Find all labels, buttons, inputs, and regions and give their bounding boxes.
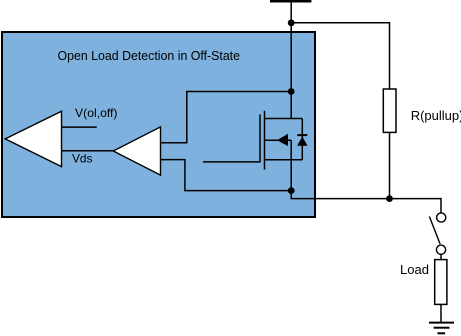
wire: drain sense to comparator input bbox=[161, 92, 292, 143]
node: supply junction bbox=[288, 19, 295, 26]
svg-text:Load: Load bbox=[400, 262, 429, 277]
node: output junction bbox=[386, 195, 393, 202]
svg-text:R(pullup): R(pullup) bbox=[411, 108, 461, 123]
wire: load to ground bbox=[440, 304, 442, 322]
switch S1: upper contact bbox=[437, 213, 446, 222]
wire: supply down to MOSFET drain bbox=[290, 2, 292, 119]
svg-text:Vds: Vds bbox=[72, 152, 93, 166]
transistor Q1: gate lead bbox=[203, 161, 260, 163]
diode D1: cathode bar bbox=[297, 134, 307, 136]
transistor Q1: source arrowhead bbox=[277, 134, 288, 146]
op-amp: output comparator bbox=[5, 111, 61, 166]
wire: R(pullup) down to output node bbox=[389, 132, 391, 198]
node: drain junction bbox=[288, 88, 295, 95]
node: source junction bbox=[288, 187, 295, 194]
wire: output horizontal to switch bbox=[291, 191, 441, 213]
switch S1: lower contact bbox=[436, 245, 445, 254]
wire: source vertical bbox=[290, 140, 292, 190]
wire: supply to R(pullup) bbox=[291, 23, 389, 89]
transistor Q1: gate plate bbox=[259, 114, 261, 162]
switch S1: lever bbox=[429, 217, 440, 245]
power rail VS bbox=[270, 0, 311, 3]
IC block: Open Load Detection in Off-State bbox=[2, 32, 315, 217]
ground bbox=[429, 323, 454, 334]
diode D1: body diode wire bbox=[301, 119, 303, 160]
diode D1: anode triangle bbox=[297, 137, 307, 146]
op-amp: sense buffer bbox=[113, 127, 160, 175]
svg-text:V(ol,off): V(ol,off) bbox=[75, 106, 118, 120]
transistor Q1: channel bbox=[264, 111, 266, 170]
transistor Q1: source arrow line bbox=[265, 139, 292, 141]
wire: V(ol,off) reference stub bbox=[62, 126, 97, 128]
wire: Vds to comparator bbox=[62, 150, 114, 152]
transistor Q1: drain stub bbox=[265, 118, 303, 120]
wire: switch to load bbox=[440, 254, 442, 259]
transistor Q1: source stub bbox=[265, 159, 303, 161]
resistor R(pullup) bbox=[383, 89, 396, 132]
resistor: Load bbox=[435, 260, 447, 305]
wire: source sense to comparator input bbox=[161, 160, 292, 191]
svg-text:Open Load Detection in Off-Sta: Open Load Detection in Off-State bbox=[58, 48, 241, 63]
